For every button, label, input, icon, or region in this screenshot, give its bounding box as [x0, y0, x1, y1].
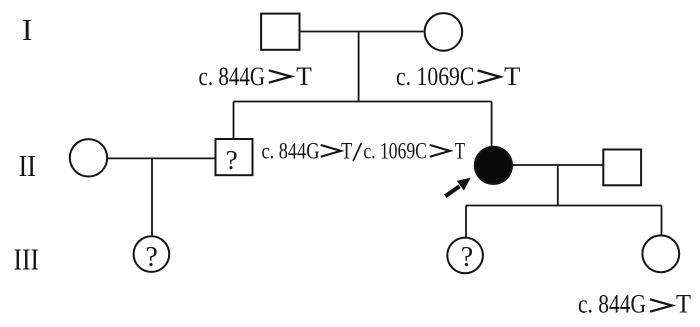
- svg-text:?: ?: [145, 242, 157, 273]
- wire drop to II-3 proband: [491, 102, 493, 148]
- wire sibship line generation III right: [466, 205, 662, 207]
- svg-text:c. 844G: c. 844G: [199, 62, 266, 91]
- individual II-2 male square with ?: [216, 139, 253, 175]
- wire drop to III-3: [661, 206, 663, 236]
- svg-text:T: T: [296, 62, 312, 91]
- svg-text:T: T: [341, 139, 352, 165]
- wire couple line generation I: [301, 31, 424, 33]
- wire couple line II right: [512, 164, 603, 166]
- wire descent drop from couple II right: [557, 165, 559, 206]
- wire sibship line generation II: [234, 101, 492, 103]
- svg-text:II: II: [19, 148, 37, 183]
- svg-text:T: T: [455, 139, 465, 165]
- individual III-3 female circle: [642, 235, 679, 272]
- individual III-2 female circle with ?: [447, 238, 483, 274]
- wire descent drop from couple I: [358, 32, 360, 102]
- svg-text:III: III: [14, 241, 40, 276]
- wire child drop II left: [151, 158, 153, 236]
- svg-text:?: ?: [225, 144, 237, 175]
- individual II-4 male square: [603, 150, 641, 186]
- svg-text:I: I: [22, 12, 32, 47]
- genotype label I-1: c. 844G>T: [199, 62, 312, 91]
- proband arrow: [445, 178, 471, 197]
- wire drop to III-2: [465, 206, 467, 238]
- svg-text:?: ?: [461, 242, 473, 273]
- genotype label I-2: c. 1069C>T: [396, 62, 521, 91]
- wire drop to II-2 square: [233, 102, 235, 139]
- individual III-1 female circle with ?: [134, 236, 170, 272]
- individual II-1 female circle: [70, 139, 107, 176]
- individual II-3 affected female proband (filled): [475, 147, 512, 184]
- svg-text:T: T: [676, 290, 691, 319]
- svg-text:c. 1069C: c. 1069C: [396, 62, 474, 91]
- individual I-2 female circle: [425, 13, 463, 51]
- individual I-1 male square: [261, 14, 299, 50]
- svg-text:c. 844G: c. 844G: [578, 290, 646, 319]
- svg-text:c. 844G: c. 844G: [262, 139, 320, 165]
- wire couple line II left: [108, 157, 216, 159]
- svg-text:T: T: [504, 62, 520, 91]
- genotype label II-2/II-3: c. 844G>T/c. 1069C>T: [262, 139, 466, 165]
- genotype label III-3: c. 844G>T: [578, 290, 691, 319]
- svg-text:c. 1069C: c. 1069C: [363, 139, 427, 165]
